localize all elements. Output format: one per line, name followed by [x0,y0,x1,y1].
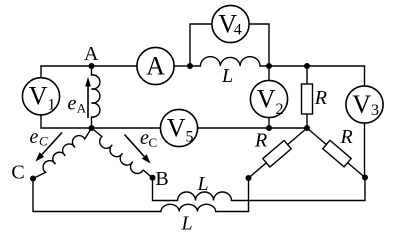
winding eA (phase A source) [92,66,100,128]
arrow eC-left [36,133,63,162]
svg-text:2: 2 [276,101,284,118]
svg-text:L: L [197,173,209,195]
label eA [68,93,87,116]
wire phase B branch with inductor L2 [153,178,366,201]
node J2 [266,63,272,69]
voltmeter V2 [250,80,287,118]
svg-text:3: 3 [371,102,379,119]
svg-text:A: A [84,43,99,65]
svg-text:V: V [352,90,371,119]
wire V4 right leg to node J2 [249,24,269,66]
wire V3 bottom leg to node DR [364,123,366,177]
node DR [362,175,368,181]
node J3 [304,63,310,69]
node J1 [187,63,193,69]
svg-text:R: R [340,126,353,148]
winding eC-left (phase C source, node N to C) [33,128,92,179]
resistor R3 (right diagonal) [307,128,365,178]
svg-text:L: L [221,65,233,87]
voltmeter V4 [212,5,249,42]
node J5 [304,125,310,131]
svg-text:V: V [29,82,48,111]
svg-text:4: 4 [234,22,242,39]
wire top-left from V1 top corner to node A [41,66,137,78]
wire V1 bottom to node N [41,115,92,128]
wire ammeter right to node J1 [174,65,190,67]
arrow eA [85,77,91,118]
resistor R1 (vertical) [302,66,313,128]
svg-text:C: C [11,162,24,184]
svg-text:B: B [155,168,168,190]
node C [30,176,36,182]
arrow eC-right [125,135,151,164]
node N [89,125,95,131]
svg-text:V: V [167,113,186,142]
wire V2 bottom leg [268,118,270,128]
svg-text:R: R [254,130,267,152]
node B [150,175,156,181]
svg-text:R: R [314,87,327,109]
wire mid: V5 to center node J5 [198,127,307,129]
svg-text:5: 5 [186,128,194,145]
ammeter A1 [137,47,174,84]
svg-text:1: 1 [48,97,56,114]
wire node J3 to V3 top [307,66,365,86]
inductor L1 (top) [190,57,269,66]
wire phase C branch with inductor L3 [33,178,249,212]
resistor R2 (left diagonal) [249,128,308,178]
node DL [246,175,252,181]
node J4 [266,125,272,131]
winding eB (node N to B) [92,128,153,178]
svg-text:A: A [146,51,165,80]
svg-text:C: C [39,134,48,149]
label eC-left [30,126,49,149]
voltmeter V3 [346,86,383,123]
node A [89,63,95,69]
voltmeter V1 [22,78,59,115]
voltmeter V5 [160,109,197,146]
wire V2 top leg [268,66,270,80]
wire node J2 to node J3 [269,65,307,67]
svg-text:V: V [257,84,276,113]
svg-text:L: L [181,213,193,235]
wire mid: node N to V5 [92,127,161,129]
svg-text:e: e [68,93,77,115]
wire V4 left leg [190,24,212,66]
svg-text:C: C [149,135,158,150]
svg-text:A: A [77,101,87,116]
svg-text:e: e [30,126,39,148]
label eC-right [140,127,157,150]
